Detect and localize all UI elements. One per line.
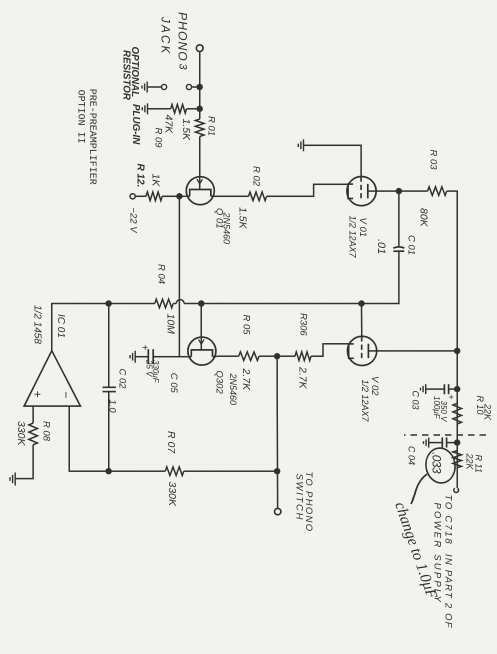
svg-text:Q302: Q302 bbox=[214, 371, 225, 395]
node rail C04 tap bbox=[454, 439, 460, 445]
svg-text:R 01: R 01 bbox=[206, 116, 217, 136]
label C05 bbox=[168, 373, 179, 394]
svg-text:R 02: R 02 bbox=[251, 166, 262, 187]
svg-text:330K: 330K bbox=[15, 421, 27, 447]
transistor Q01 bbox=[186, 177, 215, 205]
resistor R306 bbox=[295, 352, 311, 361]
svg-text:2.7K: 2.7K bbox=[297, 366, 309, 390]
capacitor C04 bbox=[442, 437, 446, 447]
svg-text:C 01: C 01 bbox=[406, 235, 417, 255]
wire bbox=[304, 145, 362, 176]
ground bbox=[10, 473, 15, 486]
label V 01 bbox=[357, 218, 368, 238]
node V02 grid node bbox=[358, 300, 364, 306]
svg-text:80K: 80K bbox=[418, 208, 430, 228]
label R 01 bbox=[206, 116, 217, 136]
node output node bbox=[274, 353, 280, 359]
node source junction bbox=[176, 193, 182, 199]
label C 04 bbox=[407, 446, 417, 465]
label TO C718 bbox=[443, 495, 454, 546]
label P&#8202;H&#8202;O&#8202;N&#8202;O bbox=[176, 12, 190, 61]
svg-text:R 08: R 08 bbox=[41, 421, 52, 442]
svg-text:C 05: C 05 bbox=[168, 373, 179, 394]
label C03 plus bbox=[445, 394, 456, 400]
wire bbox=[449, 388, 458, 390]
svg-text:R306: R306 bbox=[298, 313, 309, 336]
label 1/2 12AX7 bbox=[360, 380, 370, 423]
label Q 01 bbox=[214, 208, 225, 229]
svg-text:25 V: 25 V bbox=[144, 359, 153, 377]
label 25V bbox=[144, 359, 153, 377]
label 1.0 bbox=[107, 400, 118, 414]
resistor R05 bbox=[239, 352, 259, 361]
label R 08 bbox=[41, 421, 52, 442]
plug-in pin bbox=[186, 84, 191, 89]
wire bbox=[187, 108, 200, 110]
wire bbox=[376, 190, 399, 192]
label 1.5K bbox=[237, 207, 249, 230]
svg-text:−: − bbox=[59, 392, 73, 399]
label OPTIONAL bbox=[129, 47, 140, 98]
svg-text:100μF: 100μF bbox=[432, 396, 441, 420]
wire bbox=[173, 303, 176, 305]
label POWER SUPPLY bbox=[432, 503, 443, 605]
label 2N5460 bbox=[222, 212, 232, 245]
svg-text:PLUG-IN: PLUG-IN bbox=[130, 104, 141, 145]
svg-text:330K: 330K bbox=[166, 482, 178, 508]
resistor R12 bbox=[146, 192, 162, 201]
ground bbox=[421, 384, 426, 394]
svg-text:3: 3 bbox=[177, 64, 189, 71]
label 22K bbox=[483, 403, 493, 421]
svg-text:+: + bbox=[445, 394, 456, 400]
wire bbox=[199, 137, 201, 178]
svg-text:RESISTOR: RESISTOR bbox=[121, 50, 132, 101]
resistor R07 bbox=[165, 467, 184, 476]
wire bbox=[276, 356, 279, 508]
resistor R11 bbox=[453, 451, 462, 468]
wire bbox=[109, 470, 166, 472]
label C 02 bbox=[117, 369, 128, 390]
wire bbox=[201, 303, 361, 305]
wire bbox=[447, 191, 458, 488]
wire bbox=[192, 86, 200, 88]
label C 03 bbox=[411, 391, 421, 410]
svg-text:C 03: C 03 bbox=[411, 391, 421, 410]
oval annotation bbox=[424, 446, 458, 485]
node C02 node bbox=[106, 300, 112, 306]
svg-text:.01: .01 bbox=[375, 239, 387, 254]
label R306 bbox=[298, 313, 309, 336]
wire bbox=[153, 356, 187, 358]
wire bbox=[108, 392, 110, 472]
svg-text:P H O N O: P H O N O bbox=[176, 12, 190, 61]
wire bbox=[199, 52, 201, 119]
label 330K bbox=[15, 421, 27, 447]
ground bbox=[142, 103, 147, 114]
terminal -22V bbox=[130, 194, 135, 199]
label R 10 bbox=[475, 396, 485, 415]
wire bbox=[184, 470, 277, 472]
svg-text:+: + bbox=[31, 391, 45, 398]
wire bbox=[200, 304, 202, 338]
wire bbox=[311, 344, 349, 356]
wire bbox=[267, 184, 349, 196]
svg-text:−22 V: −22 V bbox=[128, 208, 139, 235]
label Q302 bbox=[214, 371, 225, 395]
label SWITCH bbox=[294, 474, 305, 522]
resistor R01 bbox=[195, 119, 204, 137]
wire bbox=[259, 355, 277, 357]
svg-text:1/2 1458: 1/2 1458 bbox=[32, 305, 43, 344]
label R 02 bbox=[251, 166, 262, 187]
wire bbox=[362, 251, 399, 303]
svg-text:SWITCH: SWITCH bbox=[294, 474, 305, 522]
wire bbox=[184, 303, 201, 305]
ground bbox=[298, 139, 303, 151]
svg-text:2.7K: 2.7K bbox=[240, 368, 252, 392]
label OPTION II bbox=[75, 90, 86, 144]
label 3 bbox=[177, 64, 189, 71]
svg-text:R 03: R 03 bbox=[428, 150, 439, 171]
label .01 bbox=[375, 239, 387, 254]
label RESISTOR bbox=[121, 50, 132, 101]
label IC 01 bbox=[55, 314, 66, 338]
svg-text:R 09: R 09 bbox=[153, 128, 164, 149]
ground bbox=[424, 438, 429, 448]
label .033 bbox=[430, 452, 444, 474]
svg-text:PRE-PREAMPLIFIER: PRE-PREAMPLIFIER bbox=[86, 89, 97, 185]
ground bbox=[130, 351, 135, 363]
node R09 junction bbox=[197, 106, 203, 112]
wire bbox=[426, 388, 445, 390]
svg-text:+: + bbox=[139, 345, 150, 351]
label 2.7K bbox=[297, 366, 309, 390]
wire bbox=[398, 191, 400, 247]
wire bbox=[147, 86, 161, 88]
transistor Q302 bbox=[187, 337, 216, 365]
ground bbox=[142, 82, 147, 93]
label 1K bbox=[150, 174, 162, 188]
node plate node bbox=[396, 188, 402, 194]
capacitor C02 bbox=[103, 387, 116, 391]
wire bbox=[109, 303, 155, 305]
svg-text:.033: .033 bbox=[430, 452, 444, 474]
svg-text:1.5K: 1.5K bbox=[237, 207, 249, 230]
label &#8722;22 V bbox=[128, 208, 139, 235]
wire bbox=[69, 406, 109, 471]
svg-text:2N5460: 2N5460 bbox=[222, 212, 232, 245]
label R 05 bbox=[241, 315, 252, 336]
label R 03 bbox=[428, 150, 439, 171]
svg-text:22K: 22K bbox=[483, 403, 493, 421]
wire bbox=[148, 108, 171, 110]
label 100&#956;F bbox=[432, 396, 441, 420]
plug-in pin bbox=[162, 84, 167, 89]
wire bbox=[361, 304, 363, 337]
svg-text:1.0: 1.0 bbox=[107, 400, 118, 414]
svg-text:OPTION II: OPTION II bbox=[75, 90, 86, 144]
wire bbox=[52, 304, 109, 351]
svg-text:C 04: C 04 bbox=[407, 446, 417, 465]
wire bbox=[429, 442, 443, 444]
wire bbox=[136, 195, 147, 197]
wire bbox=[178, 196, 180, 356]
phono jack J1 bbox=[196, 45, 203, 52]
label R 11 bbox=[474, 455, 484, 473]
label 80K bbox=[418, 208, 430, 228]
op-amp IC01 bbox=[24, 351, 80, 406]
label 10M bbox=[165, 314, 177, 335]
label 2N5460 bbox=[228, 373, 238, 406]
triode V02 bbox=[348, 336, 377, 365]
wire bbox=[108, 304, 110, 388]
label IN PART 2 OF bbox=[443, 554, 454, 629]
label 350 V bbox=[439, 401, 448, 423]
resistor R02 bbox=[249, 192, 267, 201]
label 1/2 12AX7 bbox=[348, 216, 358, 259]
label change to 1.0uF bbox=[391, 500, 440, 602]
capacitor C05 bbox=[148, 349, 153, 364]
wire bbox=[277, 355, 295, 357]
svg-text:R 12.: R 12. bbox=[135, 164, 146, 188]
svg-text:IC 01: IC 01 bbox=[55, 314, 66, 338]
svg-text:22K: 22K bbox=[465, 453, 475, 471]
label 22K bbox=[465, 453, 475, 471]
svg-text:R 05: R 05 bbox=[241, 315, 252, 336]
node feedback node bbox=[106, 468, 112, 474]
resistor R09 bbox=[171, 105, 187, 114]
wire hop bbox=[176, 300, 184, 304]
label 47K bbox=[163, 115, 175, 135]
wire bbox=[135, 356, 148, 358]
wire bbox=[447, 442, 458, 444]
terminal to power supply bbox=[454, 488, 459, 492]
svg-text:J A C K: J A C K bbox=[159, 16, 171, 55]
wire bbox=[15, 445, 33, 479]
svg-text:IN PART 2 OF: IN PART 2 OF bbox=[443, 554, 454, 629]
wire bbox=[162, 195, 186, 197]
label R 12. bbox=[135, 164, 146, 188]
label J&#8201;A&#8201;C&#8201;K bbox=[159, 16, 171, 55]
svg-text:2N5460: 2N5460 bbox=[228, 373, 238, 406]
label R 04 bbox=[156, 264, 167, 284]
triode V01 bbox=[347, 177, 376, 206]
resistor R03 bbox=[428, 187, 447, 196]
svg-text:1.5K: 1.5K bbox=[180, 119, 192, 142]
node rail C03 tap bbox=[454, 386, 460, 392]
node feedback tap bbox=[274, 468, 280, 474]
annotation curve bbox=[411, 474, 427, 504]
node plug junction bbox=[197, 84, 203, 90]
wire bbox=[32, 406, 34, 423]
svg-text:R 07: R 07 bbox=[165, 431, 177, 454]
label PLUG-IN bbox=[130, 104, 141, 145]
node Q302 gate node bbox=[198, 300, 204, 306]
label C05 plus bbox=[139, 345, 150, 351]
label R 07 bbox=[165, 431, 177, 454]
resistor R08 bbox=[29, 423, 38, 445]
resistor R10 bbox=[453, 403, 462, 424]
label PRE-PREAMPLIFIER bbox=[86, 89, 97, 185]
label 1.5K bbox=[180, 119, 192, 142]
terminal to phono switch bbox=[275, 508, 281, 514]
wire bbox=[377, 350, 458, 352]
svg-text:TO C718: TO C718 bbox=[443, 495, 454, 546]
node rail V02 tap bbox=[454, 348, 460, 354]
capacitor C03 bbox=[444, 384, 448, 394]
label R 09 bbox=[153, 128, 164, 149]
label 330uF bbox=[151, 360, 160, 384]
label 330K bbox=[166, 482, 178, 508]
capacitor C01 bbox=[393, 247, 404, 251]
wire bbox=[216, 355, 238, 357]
label V 02 bbox=[369, 376, 380, 396]
svg-text:C 02: C 02 bbox=[117, 369, 128, 390]
svg-text:V 01: V 01 bbox=[357, 218, 368, 238]
svg-text:1K: 1K bbox=[150, 174, 162, 188]
label TO PHONO bbox=[303, 472, 314, 533]
label 1/2 1458 bbox=[32, 305, 43, 344]
label 2.7K bbox=[240, 368, 252, 392]
svg-text:1/2 12AX7: 1/2 12AX7 bbox=[348, 216, 358, 259]
svg-text:R 04: R 04 bbox=[156, 264, 167, 284]
resistor R04 bbox=[155, 299, 173, 308]
svg-text:1/2 12AX7: 1/2 12AX7 bbox=[360, 380, 370, 423]
dashed boundary bbox=[404, 434, 486, 436]
label C 01 bbox=[406, 235, 417, 255]
svg-text:10M: 10M bbox=[165, 314, 177, 335]
wire bbox=[214, 195, 249, 197]
wire bbox=[399, 190, 428, 192]
